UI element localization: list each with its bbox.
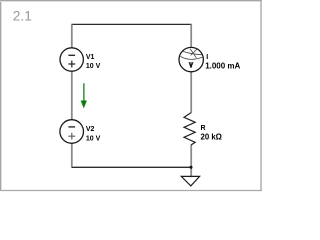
- svg-text:2.1: 2.1: [13, 9, 32, 24]
- svg-text:20 kΩ: 20 kΩ: [201, 133, 222, 142]
- svg-text:R: R: [201, 125, 206, 132]
- wire left middle (V1 to V2): [71, 71, 73, 120]
- panel border right: [260, 0, 262, 191]
- wire top horizontal: [71, 23, 191, 25]
- resistor R: [184, 113, 195, 145]
- panel border left: [0, 0, 2, 191]
- ammeter I: [179, 47, 203, 71]
- svg-text:I: I: [206, 54, 208, 61]
- wire right top (top corner to ammeter): [190, 24, 192, 47]
- wire right middle (ammeter to resistor): [190, 72, 192, 113]
- wire left top (top corner to V1): [71, 24, 73, 48]
- svg-text:10 V: 10 V: [86, 63, 101, 70]
- voltage source V2: [60, 120, 84, 144]
- wire left bottom (V2 to bottom corner): [71, 143, 73, 167]
- svg-text:V2: V2: [86, 126, 95, 133]
- voltage source V1: [60, 48, 83, 71]
- wire bottom horizontal: [71, 166, 191, 168]
- panel border top: [0, 0, 262, 2]
- svg-text:V1: V1: [86, 54, 95, 61]
- panel border bottom: [0, 190, 262, 192]
- junction dot: [190, 166, 193, 169]
- svg-text:1.000 mA: 1.000 mA: [205, 61, 240, 70]
- current direction arrow (green): [81, 83, 87, 108]
- ground: [181, 176, 199, 186]
- wire right bottom (resistor to ground): [190, 145, 192, 177]
- svg-text:10 V: 10 V: [86, 136, 101, 143]
